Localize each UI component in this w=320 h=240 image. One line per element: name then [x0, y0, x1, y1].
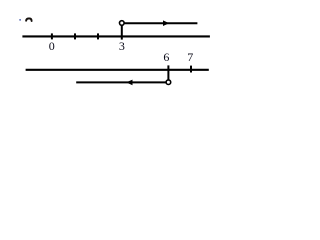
bottom number line: [26, 69, 209, 71]
top tick at 2 (unlabeled): [97, 33, 99, 39]
stray mark: dark curved stroke (cropped text remnant): [26, 19, 32, 22]
open circle at 3: [120, 21, 125, 26]
top ray arrowhead (pointing right): [163, 20, 169, 26]
svg-text:3: 3: [119, 39, 125, 53]
top number line: [22, 35, 210, 37]
top stem at 3 (circle down through line): [121, 25, 123, 40]
bottom ray x&lt;6: [76, 81, 166, 83]
top ray x&gt;3: [124, 22, 197, 24]
svg-text:0: 0: [49, 39, 55, 53]
svg-text:7: 7: [187, 50, 193, 64]
bottom tick at 7: [190, 66, 192, 73]
stray mark: small blue dot (cropped text remnant): [19, 19, 21, 21]
top tick at 1 (unlabeled): [74, 33, 76, 39]
bottom ray arrowhead (pointing left): [126, 80, 132, 86]
top tick at 0: [51, 33, 53, 39]
open circle at 6: [166, 80, 171, 85]
bottom stem at 6 (tick up, down to circle): [167, 65, 169, 80]
svg-text:6: 6: [163, 50, 169, 64]
